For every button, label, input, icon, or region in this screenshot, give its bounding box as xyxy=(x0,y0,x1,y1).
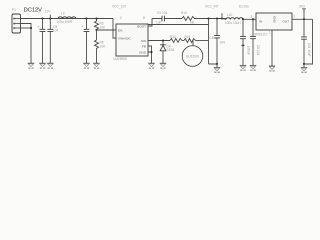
svg-text:P1: P1 xyxy=(12,8,16,12)
wire SW row xyxy=(148,40,170,42)
resistor R5 xyxy=(95,19,99,31)
svg-text:+: + xyxy=(81,25,83,29)
svg-text:8: 8 xyxy=(143,16,145,20)
wire rail corner to VIN xyxy=(113,19,116,39)
svg-text:VIN/VDC: VIN/VDC xyxy=(118,36,131,40)
svg-text:BOOT: BOOT xyxy=(137,25,146,29)
connector P1 xyxy=(12,14,21,33)
node C10 xyxy=(242,18,244,20)
svg-text:3: 3 xyxy=(250,15,252,19)
capacitor C3 plates xyxy=(84,29,90,31)
node flag VCC_INT xyxy=(221,17,223,19)
ground G2 xyxy=(39,63,45,69)
wire buzzer stub xyxy=(192,41,194,46)
svg-text:EC10u: EC10u xyxy=(239,5,249,9)
svg-text:OUT: OUT xyxy=(282,20,289,24)
node C11 xyxy=(252,18,254,20)
wire L10 to LDO xyxy=(243,18,256,20)
connector pin stubs xyxy=(15,19,20,29)
power flag 3V3 xyxy=(302,9,306,19)
node divider mid xyxy=(95,29,97,31)
plus C10 xyxy=(241,44,244,47)
svg-text:LM2596S: LM2596S xyxy=(114,57,128,61)
buzzer B1 xyxy=(182,46,203,67)
capacitor C12 branch xyxy=(303,19,305,64)
svg-text:SS34: SS34 xyxy=(167,48,175,52)
node V1 xyxy=(207,17,209,19)
wire pin2 to ground xyxy=(21,24,32,64)
svg-text:0R: 0R xyxy=(190,21,195,25)
ground G1 xyxy=(28,63,34,69)
wire BOOT lower xyxy=(148,24,209,26)
svg-text:VCC_12V: VCC_12V xyxy=(112,5,127,9)
svg-text:C9 104: C9 104 xyxy=(157,11,168,15)
capacitor C2 wire xyxy=(49,19,51,64)
wire to EN xyxy=(97,29,117,31)
ground G3 xyxy=(47,63,53,69)
svg-text:12V: 12V xyxy=(45,9,52,13)
svg-text:SW: SW xyxy=(141,39,146,43)
node V2 xyxy=(216,17,218,19)
svg-text:1uF: 1uF xyxy=(156,21,162,25)
svg-text:VCC_INT: VCC_INT xyxy=(205,5,219,9)
wire V1 vertical xyxy=(208,19,210,65)
node C3 xyxy=(85,17,87,19)
node FB GND xyxy=(150,51,152,53)
wire pin3 join xyxy=(21,27,32,29)
inductor L3 xyxy=(58,17,76,19)
LDO U2 box xyxy=(256,13,292,30)
capacitor C11 plates xyxy=(250,36,256,38)
svg-text:R24: R24 xyxy=(185,35,191,39)
wire out bracket xyxy=(304,19,313,64)
svg-text:+: + xyxy=(37,25,39,29)
svg-text:C8: C8 xyxy=(209,36,213,40)
inductor L10 xyxy=(226,18,243,20)
resistor R20 xyxy=(170,39,182,43)
diode D4 xyxy=(162,41,164,64)
svg-text:1: 1 xyxy=(269,31,271,35)
svg-text:GND: GND xyxy=(139,50,147,54)
svg-text:R10: R10 xyxy=(181,11,187,15)
wire main rail left xyxy=(21,18,114,20)
svg-text:104: 104 xyxy=(53,28,59,32)
resistor R6 xyxy=(95,30,99,63)
wire bootstrap row xyxy=(152,18,182,20)
wire LDO gnd xyxy=(271,30,273,66)
ground G11 xyxy=(269,66,275,72)
wire GND pin xyxy=(148,52,152,63)
node diode xyxy=(162,39,164,41)
svg-text:100u 100R: 100u 100R xyxy=(57,20,73,24)
capacitor C12 plates xyxy=(301,37,307,39)
capacitor C8 plates xyxy=(214,36,220,38)
node out xyxy=(303,18,305,20)
resistor R10 xyxy=(182,17,226,21)
ground G7 xyxy=(160,63,166,69)
capacitor C3 wire xyxy=(86,19,88,64)
svg-text:DC12V: DC12V xyxy=(24,7,42,13)
net flag stub 12V xyxy=(49,15,51,19)
ground G9 xyxy=(240,65,246,71)
capacitor C2 plates xyxy=(47,29,53,31)
wire to V1 xyxy=(196,40,209,42)
ground G10 xyxy=(250,65,256,71)
svg-text:L10: L10 xyxy=(227,13,233,17)
ground G5 xyxy=(93,63,99,69)
node bracket xyxy=(216,63,218,65)
resistor R24 xyxy=(184,39,196,43)
svg-text:GND: GND xyxy=(272,16,276,24)
capacitor C8 branch xyxy=(209,19,218,65)
svg-text:C6 104: C6 104 xyxy=(256,45,260,56)
wire BOOT riser xyxy=(148,19,152,27)
capacitor C1 wire xyxy=(42,19,44,64)
svg-text:2: 2 xyxy=(294,15,296,19)
svg-text:3V3: 3V3 xyxy=(299,4,305,8)
svg-text:R20: R20 xyxy=(170,35,176,39)
svg-text:EN: EN xyxy=(118,28,122,32)
node divider top xyxy=(95,17,97,19)
svg-text:L2: L2 xyxy=(61,11,65,15)
capacitor C1 plates xyxy=(40,29,46,31)
node bracket out xyxy=(303,63,305,65)
node C2 xyxy=(49,17,51,19)
capacitor C10 plates xyxy=(240,36,246,38)
svg-text:100uF: 100uF xyxy=(247,46,251,55)
svg-text:10K: 10K xyxy=(100,44,107,48)
svg-text:104 10uF: 104 10uF xyxy=(307,43,311,57)
svg-text:AMS1117: AMS1117 xyxy=(254,32,268,36)
svg-text:BUZZER: BUZZER xyxy=(186,54,199,58)
node pin3 xyxy=(30,27,32,29)
svg-text:FB: FB xyxy=(142,44,146,48)
ground G4 xyxy=(83,63,89,69)
capacitor C10 branch xyxy=(242,19,244,65)
capacitor C11 branch xyxy=(252,19,254,65)
ground G12 xyxy=(301,67,307,73)
capacitor C9 plates xyxy=(162,16,164,22)
node C1 xyxy=(41,17,43,19)
svg-text:2: 2 xyxy=(120,16,122,20)
wire FB pin xyxy=(148,46,152,52)
svg-text:IN: IN xyxy=(259,20,262,24)
wire slope to LDO row xyxy=(222,18,226,21)
wire mid xyxy=(182,40,184,42)
wire LDO out xyxy=(292,18,313,20)
ground G8 xyxy=(214,67,220,73)
svg-text:10K: 10K xyxy=(100,25,107,29)
ground stub xyxy=(216,64,218,67)
svg-text:104: 104 xyxy=(220,40,226,44)
IC U1 box xyxy=(116,24,148,56)
ground G6 xyxy=(148,63,154,69)
svg-text:100u 10uH: 100u 10uH xyxy=(225,21,241,25)
